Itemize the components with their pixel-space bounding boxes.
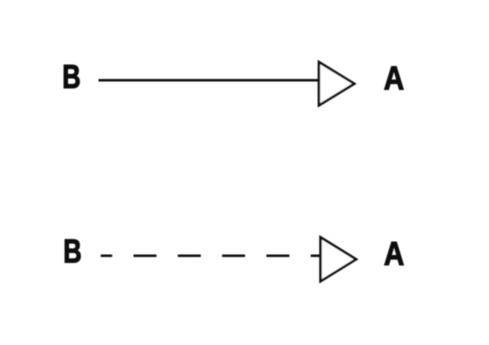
node B (bottom) label [63, 233, 81, 270]
arrowhead: open triangle (top arrow) [319, 62, 354, 105]
wire: solid arrow shaft B to A [99, 79, 320, 82]
arrowhead: open triangle (bottom arrow) [321, 237, 357, 281]
svg-text:B: B [63, 233, 81, 270]
svg-text:B: B [62, 59, 80, 96]
svg-text:A: A [384, 59, 404, 97]
wire: dashed arrow shaft B to A [101, 254, 321, 257]
node B (top) label [62, 59, 80, 96]
node A (bottom) label [384, 235, 404, 273]
node A (top) label [384, 59, 404, 97]
svg-text:A: A [384, 235, 404, 273]
